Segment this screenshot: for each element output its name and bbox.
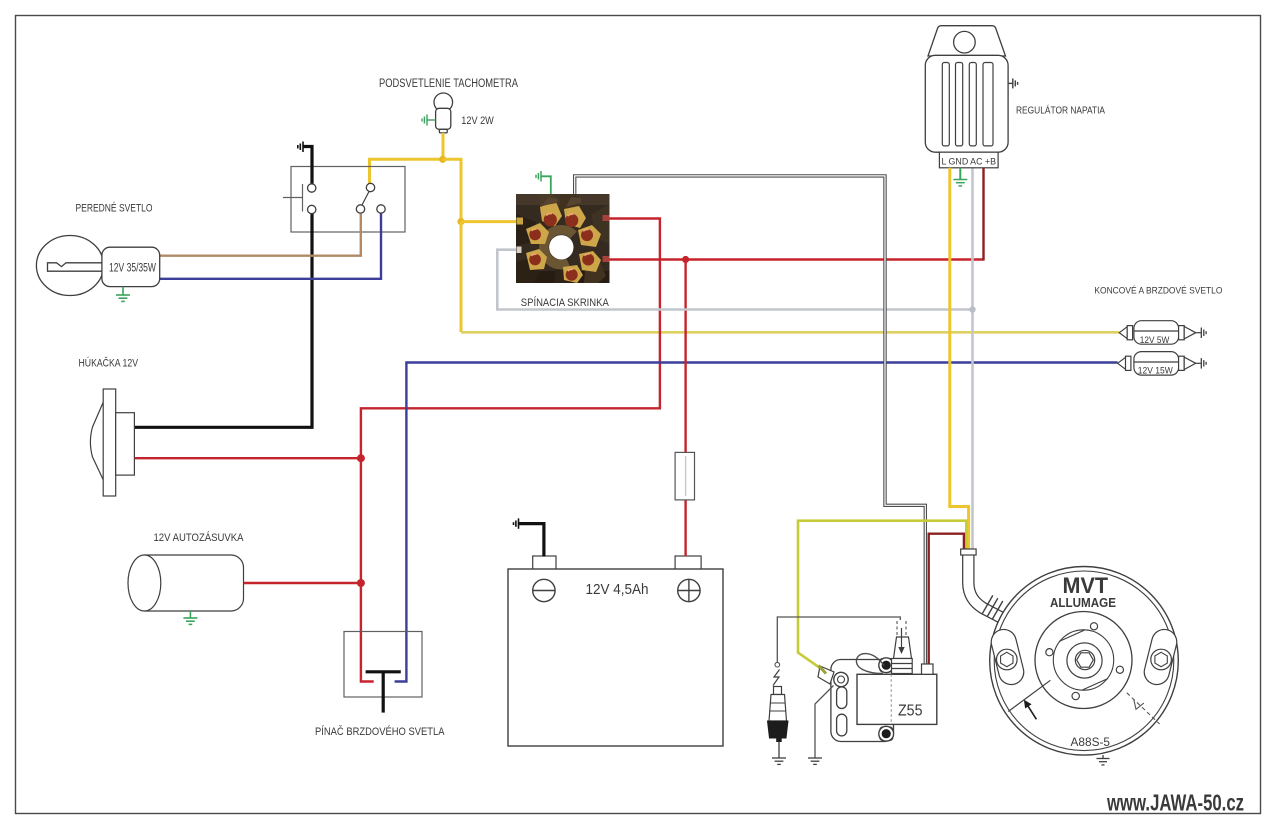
skrinka yellow wire lug [517, 218, 524, 225]
lamp: tail light 12V 5W [1119, 321, 1201, 345]
label: HUKACKA 12V [79, 357, 139, 370]
value label: A88S-5 [1071, 737, 1111, 749]
label: MVT [1063, 573, 1109, 598]
label: SPINACIA SKRINKA [521, 296, 610, 309]
wire: blue brake switch to tail light [395, 363, 1118, 682]
brake switch contact tee [366, 672, 401, 713]
magneto cable connector rings [982, 595, 1003, 619]
lamp: headlight [36, 236, 159, 296]
coil HT tower [892, 637, 913, 674]
svg-text:MVT: MVT [1063, 573, 1109, 598]
terminal: switch T5 [377, 205, 385, 213]
wire: red main feed from ignition switch [361, 219, 660, 682]
svg-text:L GND AC +B: L GND AC +B [942, 156, 997, 167]
wire: yellow down from ignition node [460, 222, 463, 332]
label: PINAC BRZDOVEHO SVETLA [315, 725, 445, 738]
skrinka terminal top-left [540, 197, 562, 226]
junction: yellow node at ignition box [457, 218, 464, 225]
svg-text:12V 5W: 12V 5W [1140, 335, 1170, 345]
label: REGULATOR NAPATIA [1016, 103, 1105, 116]
ground: switch box ground (black) [298, 142, 303, 153]
ground: brake light 15W ground [1201, 358, 1206, 369]
magneto cable sheath [961, 549, 1003, 619]
skrinka red wire lug lower [603, 256, 610, 262]
wire: green regulator GND to ground [959, 168, 961, 180]
svg-text:12V 2W: 12V 2W [461, 115, 494, 127]
terminal: switch T1 [308, 184, 316, 192]
wire: gray regulator AC down to magneto [971, 168, 974, 552]
svg-text:12V 4,5Ah: 12V 4,5Ah [586, 582, 649, 598]
svg-text:SPÍNACIA SKRINKA: SPÍNACIA SKRINKA [521, 296, 610, 309]
ground: regulator case ground [1008, 78, 1018, 88]
value label: 12V 35/35W [109, 263, 156, 275]
svg-text:A88S-5: A88S-5 [1071, 737, 1111, 749]
battery minus terminal [533, 579, 555, 601]
wire: red positive rail skrinka to regulator [609, 258, 984, 260]
value label: 12V 2W [461, 115, 494, 127]
wire: gray skrinka to regulator AC [497, 250, 972, 310]
skrinka terminal right-lower [579, 251, 601, 272]
wire: olive magneto to coil primary [798, 521, 966, 668]
svg-text:ALLUMAGE: ALLUMAGE [1050, 596, 1116, 610]
timing arrow solid [1024, 700, 1037, 720]
ground: skrinka ground (green) [542, 176, 551, 194]
ignition coil Z55 body [857, 674, 937, 724]
skrinka terminal left-lower [526, 249, 547, 270]
svg-text:KONCOVÉ A BRZDOVÉ SVETLO: KONCOVÉ A BRZDOVÉ SVETLO [1094, 286, 1222, 297]
wire: red battery plus through fuse [684, 260, 686, 557]
wire: pale yellow rail to tail light [461, 331, 1119, 334]
svg-text:REGULÁTOR NAPATIA: REGULÁTOR NAPATIA [1016, 103, 1105, 116]
magneto MVT flywheel [990, 567, 1179, 756]
value label: 12V 15W [1138, 365, 1174, 375]
ground: tail light 5W ground [1201, 328, 1206, 339]
value label: 12V 5W [1140, 335, 1170, 345]
skrinka terminal bottom [563, 265, 583, 283]
fuse [675, 452, 694, 500]
junction: red node at horn [357, 454, 365, 462]
junction: gray node [969, 306, 975, 312]
HT cable cut marks [897, 621, 906, 636]
socket: 12V autozasuvka [128, 555, 244, 611]
terminal: switch T3 [356, 205, 364, 213]
lamp: tachometer bulb [434, 93, 453, 133]
junction: red node at fuse [682, 256, 689, 263]
junction: yellow node at bulb [439, 156, 446, 163]
ground: headlight ground [116, 287, 130, 302]
battery 12V 4.5Ah [508, 556, 723, 746]
timing mark line [1008, 680, 1050, 711]
watermark: www.JAWA-50.cz [1106, 790, 1244, 816]
wire: yellow junction to ignition switch [443, 159, 461, 221]
magneto right mounting ear [1142, 627, 1180, 687]
spark plug [768, 687, 789, 759]
wire: yellow junction to switch terminal [370, 159, 443, 184]
ground: coil ground [808, 758, 822, 764]
wire: HT lead to spark plug [777, 617, 900, 662]
label: KONCOVE A BRZDOVE SVETLO [1094, 286, 1222, 297]
svg-text:HÚKAČKA 12V: HÚKAČKA 12V [79, 357, 139, 370]
wire: dark red coil to magneto [929, 534, 964, 664]
label: PODSVETLENIE TACHOMETRA [379, 78, 518, 90]
switch: light switch box [283, 167, 405, 233]
wire: black ground to switch terminal [304, 147, 313, 185]
ground: battery ground [514, 518, 519, 528]
wire: yellow regulator L to magneto [950, 168, 969, 552]
switch: brake light switch box [344, 632, 422, 698]
svg-text:www.JAWA-50.cz: www.JAWA-50.cz [1106, 790, 1244, 816]
magneto hub [1067, 643, 1102, 678]
magneto stator plate [1035, 612, 1132, 709]
voltage regulator body [925, 26, 1008, 153]
ground: magneto ground [1097, 755, 1110, 765]
svg-text:PODSVETLENIE TACHOMETRA: PODSVETLENIE TACHOMETRA [379, 78, 518, 90]
skrinka terminal top-right [564, 197, 586, 228]
wire: red autozasuvka to junction [244, 582, 361, 584]
wire: yellow bulb to junction [442, 133, 445, 159]
wire: brown switch to headlight [160, 214, 361, 256]
skrinka terminal right-upper [578, 225, 601, 247]
svg-text:12V AUTOZÁSUVKA: 12V AUTOZÁSUVKA [154, 531, 245, 544]
ground: tachometer bulb ground [422, 115, 436, 126]
battery plus terminal [678, 579, 700, 601]
coil jumper wire loop [856, 654, 884, 674]
svg-text:12V 15W: 12V 15W [1138, 365, 1174, 375]
label: ALLUMAGE [1050, 596, 1116, 610]
skrinka terminal left-upper [526, 223, 549, 244]
wire: black switch to horn [135, 214, 312, 428]
regulator cooling slots [942, 63, 993, 146]
ignition switch: spinacia skrinka photo [516, 194, 610, 283]
ground: autozasuvka ground [183, 611, 197, 624]
terminal: switch T2 [308, 205, 316, 213]
HT arrow into tower [898, 628, 904, 654]
wire: dark red regulator +B to positive rail [982, 168, 984, 261]
horn 12V [90, 389, 134, 496]
spark gap symbol [773, 670, 780, 686]
rotation dashed arrow [1127, 693, 1160, 724]
stator screw holes [1046, 623, 1124, 700]
wire: black battery minus to ground [519, 524, 544, 557]
svg-text:12V 35/35W: 12V 35/35W [109, 263, 156, 275]
skrinka red wire lug upper [603, 215, 610, 221]
switch lever [362, 192, 369, 206]
skrinka gray wire lug [517, 247, 522, 254]
coil primary terminal eyelet [818, 666, 848, 687]
coil mounting bolt bottom [879, 726, 894, 741]
magneto left mounting ear [989, 627, 1027, 687]
value label: 12V 4,5Ah [586, 582, 649, 598]
regulator terminal box L GND AC +B [939, 152, 998, 168]
junction: red node at autozasuvka [357, 579, 365, 587]
wire: coil ground lead [815, 686, 834, 759]
svg-text:PEREDNÉ SVETLO: PEREDNÉ SVETLO [76, 202, 153, 215]
terminal: switch T4 [366, 183, 374, 191]
lamp: brake light 12V 15W [1118, 352, 1201, 376]
svg-text:PÍNAČ BRZDOVÉHO SVETLA: PÍNAČ BRZDOVÉHO SVETLA [315, 725, 445, 738]
ignition coil mounting bracket [831, 660, 894, 742]
wire: dark gray double skrinka to ignition coil [575, 176, 926, 664]
spark plug connector circle [775, 662, 780, 667]
coil secondary terminal block [922, 664, 934, 674]
label: 12V AUTOZASUVKA [154, 531, 245, 544]
coil mounting bolt top [879, 658, 894, 673]
wire: blue switch to headlight [160, 214, 381, 279]
ground: regulator GND ground [953, 180, 967, 186]
wire: yellow to spinacia skrinka terminal [461, 220, 517, 223]
label: PEREDNE SVETLO [76, 202, 153, 215]
ground: spark plug ground [772, 758, 786, 764]
svg-text:Z55: Z55 [898, 703, 923, 720]
wire: red horn to junction [135, 457, 361, 459]
